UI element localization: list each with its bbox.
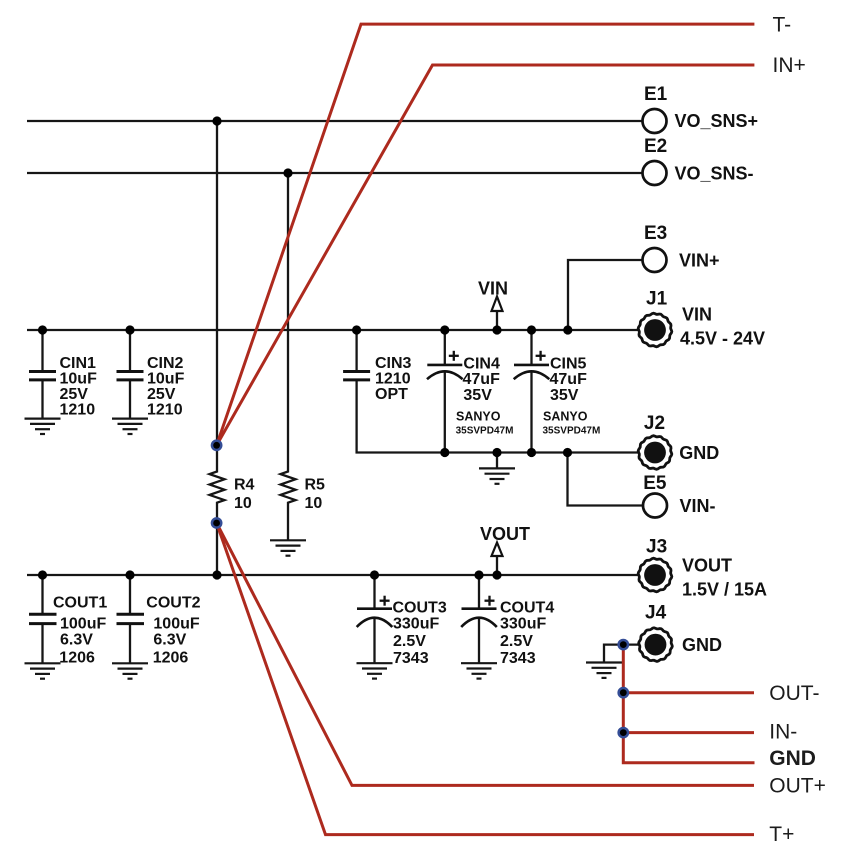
svg-text:100uF: 100uF (60, 615, 106, 632)
svg-text:CIN4: CIN4 (463, 356, 500, 373)
svg-text:OUT-: OUT- (769, 682, 819, 705)
svg-text:330uF: 330uF (500, 615, 546, 632)
svg-text:J3: J3 (646, 536, 667, 557)
svg-text:2.5V: 2.5V (500, 633, 533, 650)
svg-text:10uF: 10uF (60, 370, 98, 387)
svg-text:1210: 1210 (60, 402, 96, 419)
svg-text:6.3V: 6.3V (60, 631, 93, 648)
svg-text:IN+: IN+ (773, 54, 806, 77)
svg-text:1206: 1206 (59, 650, 95, 667)
svg-text:35V: 35V (463, 387, 492, 404)
svg-text:1210: 1210 (375, 370, 411, 387)
svg-text:VIN: VIN (478, 279, 508, 299)
svg-text:10uF: 10uF (147, 370, 185, 387)
svg-text:1210: 1210 (147, 402, 183, 419)
svg-text:35V: 35V (550, 387, 579, 404)
svg-text:R4: R4 (234, 476, 255, 493)
svg-text:E2: E2 (644, 136, 667, 157)
svg-text:J2: J2 (644, 413, 665, 434)
svg-text:VOUT: VOUT (480, 524, 530, 544)
svg-text:T+: T+ (769, 823, 794, 846)
svg-text:OUT+: OUT+ (769, 774, 826, 797)
svg-text:CIN3: CIN3 (375, 355, 412, 372)
svg-text:E1: E1 (644, 84, 668, 105)
svg-text:7343: 7343 (500, 650, 536, 667)
svg-text:6.3V: 6.3V (153, 631, 186, 648)
svg-text:T-: T- (773, 14, 792, 37)
svg-text:VIN+: VIN+ (679, 251, 720, 271)
svg-text:35SVPD47M: 35SVPD47M (543, 426, 601, 437)
svg-text:4.5V - 24V: 4.5V - 24V (680, 329, 765, 349)
svg-text:J1: J1 (646, 288, 668, 309)
svg-text:GND: GND (682, 635, 722, 655)
svg-text:47uF: 47uF (463, 371, 501, 388)
svg-text:R5: R5 (305, 476, 326, 493)
svg-text:OPT: OPT (375, 386, 408, 403)
svg-text:E5: E5 (643, 473, 667, 494)
svg-text:VIN-: VIN- (680, 496, 716, 516)
svg-text:CIN1: CIN1 (60, 355, 97, 372)
svg-text:25V: 25V (60, 386, 89, 403)
svg-text:7343: 7343 (393, 650, 429, 667)
svg-text:SANYO: SANYO (456, 410, 501, 424)
svg-text:330uF: 330uF (393, 615, 439, 632)
svg-text:COUT1: COUT1 (53, 594, 107, 611)
svg-text:VIN: VIN (682, 305, 712, 325)
svg-text:E3: E3 (644, 223, 667, 244)
svg-text:VOUT: VOUT (682, 556, 732, 576)
svg-text:COUT3: COUT3 (393, 599, 447, 616)
svg-text:100uF: 100uF (153, 615, 199, 632)
svg-text:VO_SNS+: VO_SNS+ (675, 111, 759, 131)
svg-text:CIN5: CIN5 (550, 356, 587, 373)
svg-text:COUT4: COUT4 (500, 599, 554, 616)
svg-text:J4: J4 (645, 602, 667, 623)
svg-text:1.5V / 15A: 1.5V / 15A (682, 580, 767, 600)
svg-text:47uF: 47uF (550, 371, 588, 388)
svg-text:GND: GND (769, 747, 816, 770)
svg-text:2.5V: 2.5V (393, 633, 426, 650)
svg-text:25V: 25V (147, 386, 176, 403)
svg-text:10: 10 (234, 495, 252, 512)
svg-text:GND: GND (679, 443, 719, 463)
svg-text:10: 10 (305, 495, 323, 512)
svg-text:35SVPD47M: 35SVPD47M (456, 426, 514, 437)
svg-text:VO_SNS-: VO_SNS- (675, 164, 754, 184)
svg-text:COUT2: COUT2 (146, 594, 200, 611)
svg-text:CIN2: CIN2 (147, 355, 184, 372)
svg-text:1206: 1206 (153, 650, 189, 667)
svg-text:IN-: IN- (769, 721, 797, 744)
svg-text:SANYO: SANYO (543, 410, 588, 424)
